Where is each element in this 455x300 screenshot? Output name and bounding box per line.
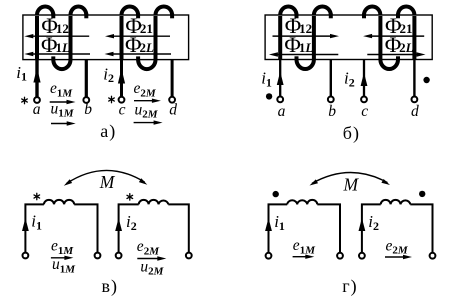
svg-text:c: c [361, 103, 368, 120]
svg-text:a: a [278, 103, 286, 120]
svg-text:b: b [84, 101, 92, 118]
svg-text:б): б) [343, 123, 360, 144]
svg-text:d: d [169, 101, 177, 118]
svg-text:b: b [328, 103, 336, 120]
svg-text:г): г) [342, 276, 357, 297]
svg-text:a: a [33, 101, 41, 118]
svg-text:M: M [99, 172, 116, 192]
svg-text:в): в) [102, 276, 119, 297]
svg-text:c: c [119, 101, 126, 118]
svg-text:d: d [411, 103, 419, 120]
svg-text:M: M [343, 174, 360, 194]
svg-text:а): а) [100, 121, 116, 142]
